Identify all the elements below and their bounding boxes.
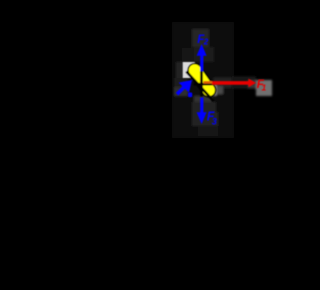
svg-text:1: 1 bbox=[262, 83, 267, 93]
svg-text:3: 3 bbox=[212, 117, 217, 127]
svg-text:2: 2 bbox=[203, 38, 209, 47]
